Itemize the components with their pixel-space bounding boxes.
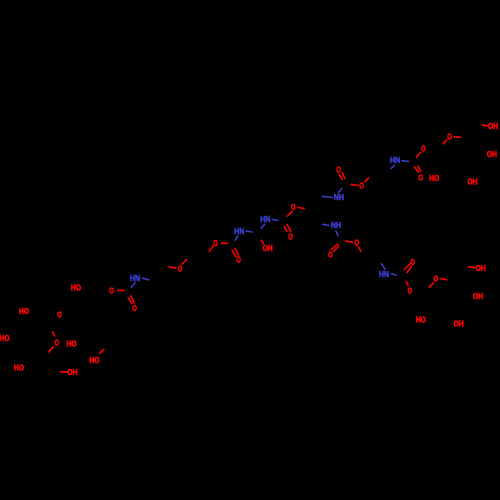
wire d9 : carbamate2 C=O double bond xyxy=(339,173,345,180)
wire d17 : carbamate5 C=O double bond xyxy=(128,296,134,304)
svg-text:HO: HO xyxy=(71,283,82,293)
svg-text:HN: HN xyxy=(130,273,140,283)
wire b4b : N4 bond stub to carbamate C xyxy=(235,236,238,240)
svg-text:OH: OH xyxy=(67,367,77,377)
wire s13a : O13 bond stub to carbamate C xyxy=(221,242,227,244)
wire b6b : N6 bond stub to carbamate C xyxy=(131,283,135,288)
svg-text:O: O xyxy=(421,143,426,153)
svg-text:HN: HN xyxy=(234,226,244,236)
svg-text:O: O xyxy=(447,132,452,142)
wire s10b : O10 bond stub to carbamate C xyxy=(287,211,292,216)
wire s2a : O2 ring bond stub right xyxy=(454,136,461,138)
wire b1a : N1 bond stub to carbamate C xyxy=(402,160,408,163)
wire d11 : carbamate3 C=O double bond xyxy=(284,225,291,232)
svg-text:O: O xyxy=(132,303,137,313)
svg-text:HN: HN xyxy=(260,214,270,224)
svg-text:O: O xyxy=(213,238,218,248)
wire d14 : carbamate4 C=O double bond xyxy=(232,248,238,256)
svg-text:HO: HO xyxy=(19,306,30,316)
wire b5a : N5 bond stub to CH2 xyxy=(323,224,329,225)
wire s22b : O22 bond stub down to C xyxy=(49,347,53,352)
wire s10a : O10 bond stub to CH2 xyxy=(298,207,304,210)
wire s8b : O8 bond stub to CH2 xyxy=(365,178,369,182)
wire s16 : O16 bond stub to carbamate C xyxy=(118,290,125,292)
wire b5b : N5 bond stub to carbamate C xyxy=(336,231,338,236)
svg-text:OH: OH xyxy=(467,177,477,187)
wire d5 : carbamate1 C=O double bond xyxy=(415,166,421,172)
svg-text:OH: OH xyxy=(454,319,464,329)
svg-text:OH: OH xyxy=(488,121,498,131)
svg-text:OH: OH xyxy=(487,149,497,159)
wire s8a : O8 bond stub to carbamate C xyxy=(351,184,358,185)
svg-text:HO: HO xyxy=(0,333,10,343)
wire d27 : carbamate6 C=O double bond xyxy=(404,263,411,272)
wire s15a : O15 bond stub left xyxy=(169,267,176,268)
svg-text:O: O xyxy=(55,338,60,348)
wire b2a : N2 bond stub to carbamate C xyxy=(339,189,342,193)
wire s2b : O2 ring bond stub to C1 xyxy=(443,140,447,144)
wire d35 : carbamate7 C=O double bond xyxy=(331,244,338,251)
svg-text:NH: NH xyxy=(331,220,341,230)
svg-text:HN: HN xyxy=(379,269,389,279)
svg-text:HO: HO xyxy=(416,315,427,325)
wire s28a : O28 bond stub to carbamate C xyxy=(406,282,408,286)
svg-text:HO: HO xyxy=(67,339,78,349)
wire b1b : N1 bond stub to CH2 xyxy=(391,165,394,168)
wire b6a : N6 bond stub to CH2 xyxy=(142,278,149,280)
svg-text:HO: HO xyxy=(429,173,440,183)
wire b2b : N2 bond stub to CH2 xyxy=(322,196,332,197)
wire s26 : O26 bond stub to C xyxy=(60,371,67,373)
svg-text:HN: HN xyxy=(390,155,400,165)
wire s12 : O12 bond stub to CH xyxy=(261,240,263,244)
wire s29b : O29 ring bond stub to C1 xyxy=(429,283,434,288)
svg-text:O: O xyxy=(288,231,293,241)
wire b4a : N4 bond stub to CH xyxy=(246,231,252,232)
svg-text:O: O xyxy=(57,309,62,319)
wire s34a : O34 bond stub to carbamate C xyxy=(345,241,352,242)
wire b7a : N7 bond stub to carbamate C xyxy=(391,274,396,275)
svg-text:O: O xyxy=(408,286,413,296)
wire s30 : O30 bond stub to C6 xyxy=(468,266,475,269)
svg-text:O: O xyxy=(434,273,439,283)
wire b3b : N3 bond stub to CH xyxy=(261,224,264,228)
wire s15b : O15 bond stub right up xyxy=(182,260,187,265)
wire s13b : O13 bond stub to CH2 xyxy=(209,246,213,251)
svg-text:HO: HO xyxy=(89,355,100,365)
svg-text:OH: OH xyxy=(263,243,273,253)
svg-text:O: O xyxy=(419,172,424,182)
svg-text:OH: OH xyxy=(476,263,486,273)
wire b3a : N3 bond stub to carbamate C xyxy=(272,219,278,220)
wire b7b : N7 bond stub to CH2 xyxy=(382,264,386,269)
svg-text:O: O xyxy=(236,255,241,265)
wire s29a : O29 ring bond stub right xyxy=(440,279,447,280)
wire s34b : O34 bond stub to CH2 xyxy=(358,247,361,252)
wire s24 : O24 bond stub to C6 xyxy=(100,349,104,353)
wire s1 : O1 bond stub to C6 xyxy=(482,125,488,126)
svg-text:NH: NH xyxy=(334,192,344,202)
svg-text:O: O xyxy=(328,249,333,259)
svg-text:OH: OH xyxy=(473,291,483,301)
svg-text:O: O xyxy=(291,202,296,212)
svg-text:O: O xyxy=(336,164,341,174)
svg-text:O: O xyxy=(354,237,359,247)
svg-text:O: O xyxy=(359,181,364,191)
wire s22a : O22 hashed stub up to C1 xyxy=(53,332,56,338)
wire s4a : O4 bond stub to carbamate C xyxy=(417,152,421,157)
svg-text:HO: HO xyxy=(14,363,25,373)
svg-text:O: O xyxy=(109,286,114,296)
